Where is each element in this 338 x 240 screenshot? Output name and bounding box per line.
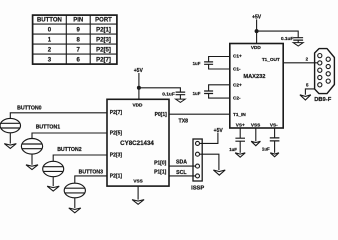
capacitor 1uF at VS- [270,138,280,141]
label DB9-F [314,97,332,103]
connector J1 ISSP header [193,139,202,181]
svg-text:PORT: PORT [95,18,112,24]
DB9 pin 8 circle [326,72,330,76]
level shifter U2 MAX232 [230,44,283,129]
capsense button B3 [64,183,85,198]
svg-text:2: 2 [306,57,309,62]
svg-text:6: 6 [77,57,81,63]
ground under U1 VSS [132,200,144,205]
svg-text:SCL: SCL [176,170,187,176]
wire DB9 pin 5 to ground [305,89,314,95]
ground under 0.1uF (U2) [293,43,303,46]
ground at DB9 pin 5 [300,95,311,100]
ISSP pin 1 circle [196,141,200,145]
ground under B2 [47,186,59,191]
capacitor C1 1uF [204,62,213,64]
svg-text:VSS: VSS [133,178,142,183]
svg-text:C2-: C2- [233,95,241,100]
ISSP pin 3 circle [196,164,200,168]
label B2 [57,147,82,153]
svg-text:P2[7]: P2[7] [110,110,123,116]
wire B3 to ground [74,198,76,208]
svg-text:0.1uF: 0.1uF [162,92,175,98]
wire cap to ground [179,95,181,99]
wire B0 to pin [10,113,107,119]
capsense button B2 [43,161,64,176]
svg-text:P2[5]: P2[5] [96,47,111,53]
wire B1 to ground [31,154,33,165]
button/pin/port lookup table [33,15,117,64]
DB9 pin 3 circle [318,68,322,72]
ISSP pin 2 circle [196,152,200,156]
svg-text:ISSP: ISSP [191,185,204,191]
svg-text:C1+: C1+ [233,54,242,59]
value label 0.1uF (U1) [162,92,175,98]
wire B3 to pin [75,176,107,183]
capsense button B1 [21,139,42,155]
wire ISSP pin1 to +5V [200,133,218,144]
capacitor 0.1uF (U2 bypass) [293,38,303,40]
wire capacitor C1 to C1- [209,64,230,69]
wire C1+ to capacitor C1 [209,57,230,62]
wire SCL net P1[1] to ISSP [169,175,196,177]
svg-text:CY8C21434: CY8C21434 [120,140,154,147]
value label 1uF (VS-) [262,147,270,152]
value label 1uF (C2) [193,91,201,96]
svg-text:0: 0 [48,27,52,33]
wire B2 to pin [53,155,107,161]
value label 1uF (C1) [193,61,201,66]
wire VS- cap to ground [274,141,276,153]
svg-text:BUTTON1: BUTTON1 [36,125,61,131]
connector J2 DB9-F shell [315,49,335,94]
svg-text:1uF: 1uF [262,147,270,152]
wire VSS U2 to ground [255,128,257,141]
capacitor 0.1uF (U1 bypass) [176,92,186,95]
DB9 pin 9 circle [326,79,330,83]
DB9 pin 4 circle [318,75,322,79]
wire B1 to pin [32,133,107,139]
svg-text:3: 3 [48,57,52,63]
label B1 [36,125,61,131]
value label 1uF (VS+) [229,147,237,152]
capsense button B0 [0,118,20,132]
wire cap to ground (U2 bypass) [297,40,299,43]
svg-text:VSS: VSS [251,122,260,127]
svg-text:VS+: VS+ [236,122,245,127]
ground under VS- cap [270,153,279,157]
wire B2 to ground [52,177,54,187]
svg-text:C1-: C1- [233,66,241,71]
svg-text:P1[1]: P1[1] [154,169,167,175]
svg-text:VDD: VDD [251,45,262,50]
wire VS+ cap to ground [239,141,241,153]
svg-text:0.1uF: 0.1uF [281,36,294,42]
label B3 [79,170,104,176]
pin number 5 [306,82,309,87]
svg-text:VS-: VS- [270,122,278,127]
svg-text:C2+: C2+ [233,82,242,87]
net label TX8 [179,118,189,124]
wire +5V down to VDD U1 [138,73,140,99]
capacitor 1uF at VS+ [235,138,245,141]
svg-text:1uF: 1uF [193,91,201,96]
power +5V label (U1) [134,68,144,74]
net label SCL [176,170,187,176]
svg-text:T1_IN: T1_IN [233,112,246,117]
svg-text:P2[5]: P2[5] [110,130,123,136]
wire T1_OUT to DB9 pin 2 [283,62,318,64]
wire VS- to capacitor [274,128,276,138]
DB9 pin 6 circle [326,57,330,61]
svg-text:TX8: TX8 [179,118,189,124]
pin number 2 [306,57,309,62]
wire TX8 net P0[1] to T1_IN [169,113,230,115]
ground under B0 [4,144,16,149]
svg-text:P2[7]: P2[7] [96,57,111,63]
svg-text:7: 7 [77,47,81,53]
ground under VS+ cap [235,153,245,157]
svg-text:P2[1]: P2[1] [110,173,123,179]
svg-text:DB9-F: DB9-F [314,97,332,103]
wire VSS U1 to ground [137,186,139,200]
wire VS+ to capacitor [239,128,241,138]
power +5V label (U2) [252,15,262,21]
wire B0 to ground [9,133,11,144]
svg-text:PIN: PIN [73,18,83,24]
svg-text:2: 2 [48,47,52,53]
ground at ISSP pin2 [213,170,225,175]
capacitor C2 1uF [204,91,213,94]
svg-text:BUTTON: BUTTON [37,18,62,24]
value label 0.1uF (U2) [281,36,294,42]
DB9 pin 5 circle [318,83,322,87]
svg-text:P2[1]: P2[1] [96,27,111,33]
svg-text:BUTTON3: BUTTON3 [79,170,104,176]
DB9 pin 7 circle [326,64,330,68]
label ISSP [191,185,204,191]
svg-text:BUTTON0: BUTTON0 [17,106,42,112]
wire ISSP pin2 to ground [200,154,219,170]
svg-text:BUTTON2: BUTTON2 [57,147,82,153]
wire +5V down to VDD U2 [256,19,258,43]
svg-text:VDD: VDD [133,102,144,107]
wire capacitor C2 to C2- [209,94,230,99]
ground under 0.1uF (U1) [176,99,186,102]
power +5V label (ISSP) [214,128,224,134]
svg-text:+5V: +5V [214,128,224,134]
svg-text:P2[3]: P2[3] [96,37,111,43]
microcontroller U1 CY8C21434 [107,99,169,186]
svg-text:1: 1 [48,37,52,43]
wire VDD net to bypass cap [139,88,181,92]
wire C2+ to capacitor C2 [209,85,230,91]
net label SDA [176,159,187,165]
ground under U2 VSS [251,141,260,145]
DB9 pin 2 circle [318,61,322,65]
svg-text:T1_OUT: T1_OUT [262,57,280,62]
svg-text:8: 8 [77,37,81,43]
DB9 pin 1 circle [318,54,322,58]
ISSP pin 4 circle [196,174,200,178]
svg-text:P2[3]: P2[3] [110,152,123,158]
ground under B1 [26,165,38,170]
label B0 [17,106,42,112]
junction dot at U2 VDD net [255,29,259,33]
wire SDA net P1[0] to ISSP [169,165,196,167]
junction dot at U1 VDD net [137,86,141,90]
svg-text:MAX232: MAX232 [243,74,265,80]
svg-text:1uF: 1uF [229,147,237,152]
svg-text:P1[0]: P1[0] [154,161,167,167]
svg-text:P0[1]: P0[1] [155,112,168,118]
ground under B3 [69,208,81,213]
svg-text:9: 9 [77,27,81,33]
svg-text:SDA: SDA [176,159,187,165]
wire VDD net to bypass cap (U2) [257,31,299,38]
svg-text:5: 5 [306,82,309,87]
svg-text:1uF: 1uF [193,61,201,66]
